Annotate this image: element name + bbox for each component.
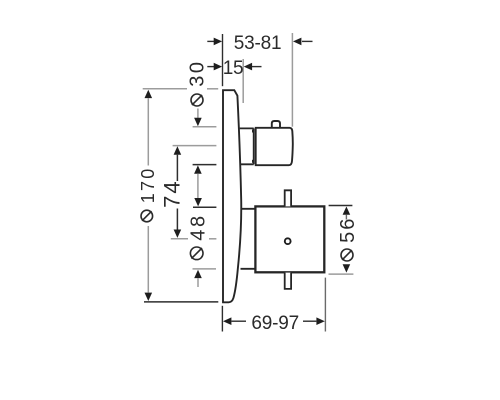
upper handle knob nub [272, 121, 280, 128]
upper valve adapter [240, 128, 254, 164]
svg-text:170: 170 [138, 167, 158, 204]
plate bottom ext line [144, 301, 218, 303]
dim O56 top ext line (black) [329, 205, 353, 207]
dim 53-81 left arrow [207, 40, 214, 42]
upper handle body [256, 128, 293, 165]
dim 15 left arrow [207, 66, 214, 68]
shaft between O30 and O48 arrows [197, 174, 199, 199]
O30 top arrow (down) [194, 118, 202, 126]
O56 bottom ext line [329, 273, 354, 275]
svg-text:30: 30 [187, 59, 209, 86]
69-97 right arrow [316, 317, 324, 325]
O56 down arrow [343, 264, 351, 272]
O170 down arrow [145, 293, 153, 301]
bottom pin [285, 273, 291, 289]
O56 up arrow [343, 207, 351, 215]
74 up arrow [174, 146, 182, 154]
69-97 left arrow [223, 317, 231, 325]
thermostat square handle [255, 206, 324, 272]
dim 69-97 right ext [324, 278, 326, 332]
dim 15 right arrow [252, 66, 262, 68]
dim 69-97 left ext [221, 306, 223, 332]
O48 bottom ext line [193, 268, 217, 270]
O30 bottom arrow (up) [194, 165, 202, 173]
adapter notch top [252, 130, 254, 133]
ext line plate top (y=88.8) [143, 88, 187, 90]
74 bottom ext line (gap for 48 text) [171, 238, 188, 240]
O48 top arrow (down) [194, 198, 202, 206]
top pin [285, 190, 291, 206]
svg-text:48: 48 [187, 213, 209, 240]
svg-text:56: 56 [337, 217, 359, 243]
O30 bottom ext line (black) [193, 164, 217, 166]
O48 top ext line (black) [193, 206, 216, 208]
74 down arrow [176, 209, 178, 230]
extension line 53-81 right [291, 33, 293, 127]
extension line 15 right [242, 59, 244, 103]
O30 top ext line [193, 126, 217, 128]
svg-text:69-97: 69-97 [251, 313, 299, 334]
O30 leader shaft [197, 109, 199, 120]
dim 53-81 right arrow [302, 40, 313, 42]
O48 bottom arrow (up) [194, 270, 202, 278]
lower valve adapter [241, 209, 256, 269]
O170 lower shaft [147, 226, 149, 293]
extension line wall face (x=222.6 top) [222, 34, 224, 86]
center dot [285, 238, 291, 244]
svg-text:53-81: 53-81 [234, 33, 282, 54]
dim O170 up arrow [145, 90, 153, 98]
svg-text:74: 74 [160, 179, 185, 207]
adapter notch bottom [252, 160, 254, 163]
O48 lower shaft [197, 278, 199, 287]
svg-text:15: 15 [223, 58, 244, 79]
escutcheon plate (side view) [223, 90, 241, 302]
dim 74 top ext line [173, 145, 217, 147]
